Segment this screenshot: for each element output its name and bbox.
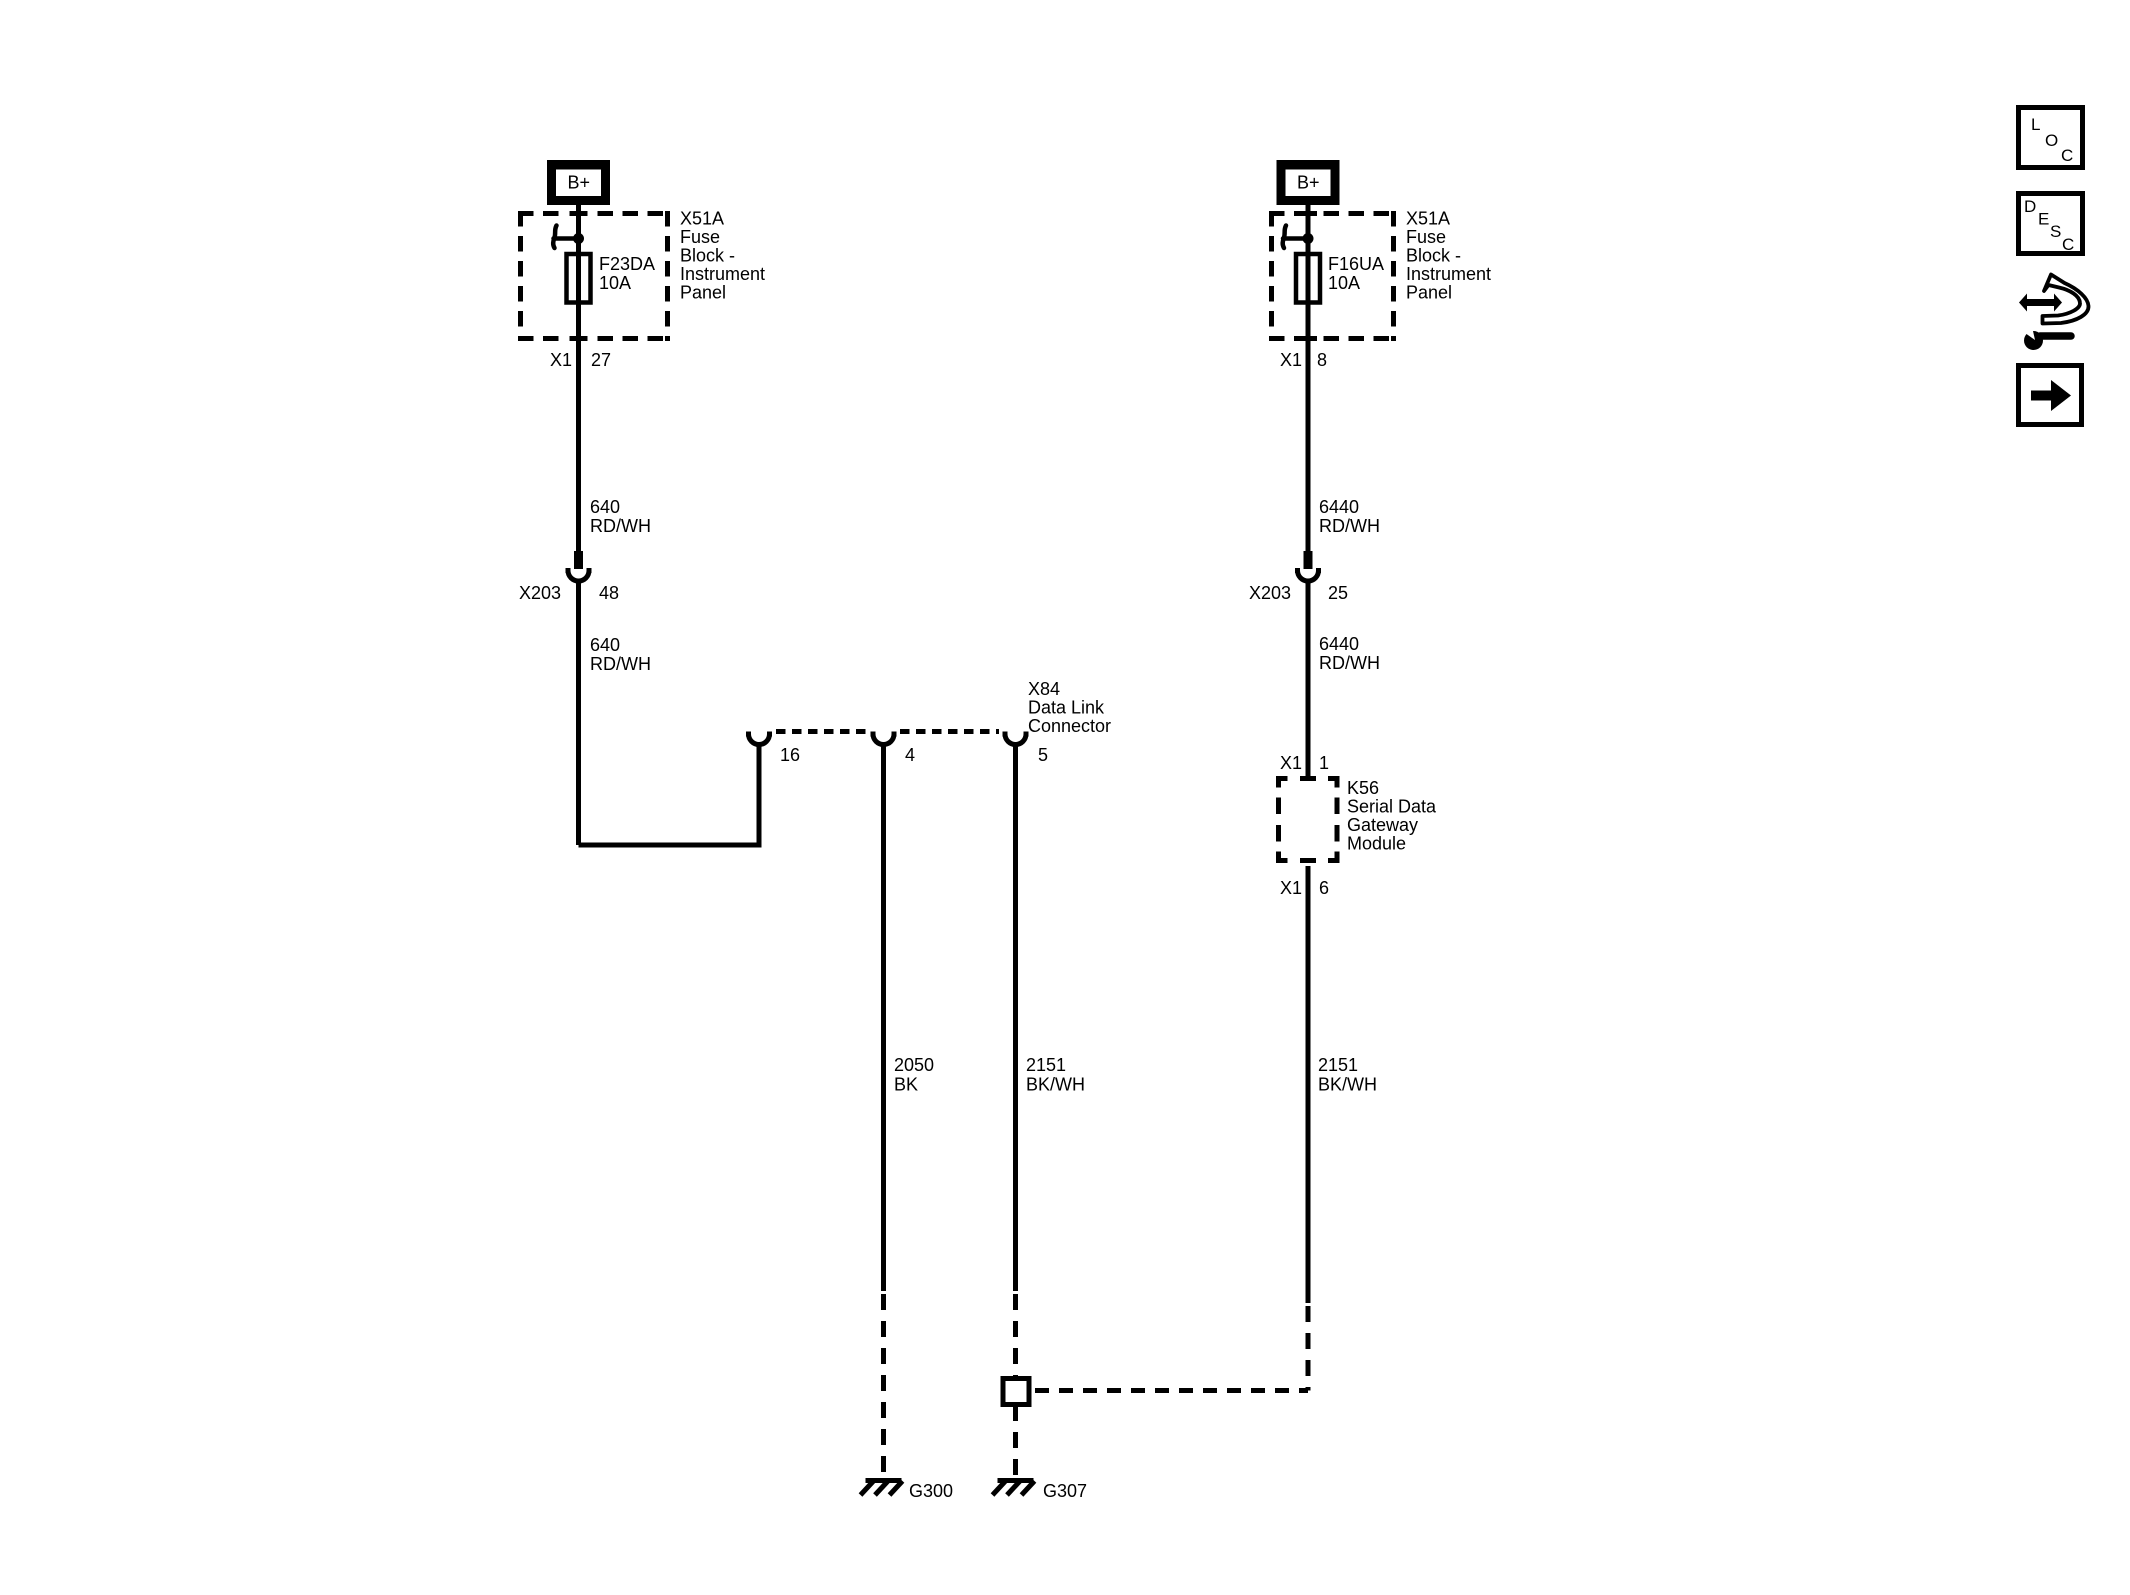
svg-text:X51A: X51A [1406, 209, 1450, 229]
power symbol B+ (battery feed) [1277, 160, 1340, 205]
svg-text:F23DA: F23DA [599, 254, 655, 274]
svg-text:C: C [2062, 235, 2074, 254]
fuse F16UA symbol [1296, 254, 1320, 303]
LOC icon box [2019, 108, 2083, 168]
svg-text:X203: X203 [1249, 583, 1291, 603]
wire 6440 RD/WH lower [1306, 583, 1311, 776]
fuse block X51A dashed outline [1269, 211, 1396, 341]
wire 640 RD/WH lower [576, 583, 581, 845]
connector X84 pin 5 [1003, 734, 1029, 745]
wire 2151 BK/WH solid (right) [1306, 866, 1311, 1303]
wire B+ through fuse block [1306, 205, 1311, 345]
wire 6440 RD/WH upper [1306, 341, 1311, 551]
svg-text:Panel: Panel [680, 283, 726, 303]
svg-text:10A: 10A [1328, 273, 1360, 293]
svg-text:L: L [2031, 115, 2040, 134]
svg-text:O: O [2045, 131, 2058, 150]
fuse block X51A dashed outline [518, 211, 670, 341]
svg-text:X51A: X51A [680, 209, 724, 229]
svg-text:RD/WH: RD/WH [590, 654, 651, 674]
svg-text:X1: X1 [1280, 350, 1302, 370]
ground G300 symbol [861, 1481, 903, 1496]
fuse block bus clip symbol [1283, 226, 1308, 249]
wire 2151 dashed down to splice level [1306, 1306, 1311, 1391]
svg-text:6440: 6440 [1319, 497, 1359, 517]
svg-text:5: 5 [1038, 745, 1048, 765]
svg-text:640: 640 [590, 635, 620, 655]
svg-text:X1: X1 [1280, 878, 1302, 898]
svg-text:Serial Data: Serial Data [1347, 797, 1437, 817]
fuse F23DA symbol [567, 254, 591, 303]
svg-text:8: 8 [1317, 350, 1327, 370]
wire 2050 BK solid [881, 746, 886, 1291]
terminal tick top [1299, 211, 1317, 216]
svg-text:25: 25 [1328, 583, 1348, 603]
wire 2151 BK/WH solid (from pin 5) [1013, 746, 1018, 1291]
connector X203 in-line symbol [1295, 551, 1321, 581]
svg-text:K56: K56 [1347, 778, 1379, 798]
svg-text:BK/WH: BK/WH [1026, 1075, 1085, 1095]
svg-text:B+: B+ [1297, 173, 1320, 193]
wire 2151 dashed to splice [1013, 1294, 1018, 1378]
svg-text:640: 640 [590, 497, 620, 517]
svg-text:48: 48 [599, 583, 619, 603]
power symbol B+ (battery feed) [547, 160, 610, 205]
svg-text:C: C [2061, 146, 2073, 165]
svg-text:S: S [2050, 222, 2061, 241]
diagnostic tool icon [2019, 275, 2089, 351]
svg-text:X203: X203 [519, 583, 561, 603]
K56 terminal tick top [1300, 776, 1316, 781]
svg-text:BK: BK [894, 1075, 918, 1095]
junction dot [1303, 233, 1314, 244]
svg-text:B+: B+ [568, 173, 591, 193]
svg-text:2151: 2151 [1318, 1055, 1358, 1075]
svg-text:G300: G300 [909, 1481, 953, 1501]
fuse block bus clip symbol [553, 226, 578, 249]
terminal tick bottom [1299, 336, 1317, 341]
wire 640 RD/WH upper [576, 341, 581, 551]
svg-text:Instrument: Instrument [680, 264, 765, 284]
X84 dashed body segment 1 [776, 729, 867, 734]
terminal tick bottom [570, 336, 588, 341]
splice junction box [1003, 1379, 1029, 1405]
ground G307 symbol [993, 1481, 1035, 1496]
svg-text:X1: X1 [1280, 753, 1302, 773]
svg-text:X84: X84 [1028, 679, 1060, 699]
svg-text:2151: 2151 [1026, 1055, 1066, 1075]
svg-text:Block -: Block - [1406, 246, 1461, 266]
svg-text:27: 27 [591, 350, 611, 370]
svg-text:4: 4 [905, 745, 915, 765]
svg-text:6440: 6440 [1319, 634, 1359, 654]
svg-text:X1: X1 [550, 350, 572, 370]
wire dashed splice to ground G307 [1013, 1405, 1018, 1478]
svg-text:16: 16 [780, 745, 800, 765]
connector X84 pin 4 [871, 734, 897, 745]
svg-text:Panel: Panel [1406, 283, 1452, 303]
svg-text:6: 6 [1319, 878, 1329, 898]
svg-text:Fuse: Fuse [1406, 227, 1446, 247]
DESC icon box [2019, 194, 2083, 255]
svg-text:Data Link: Data Link [1028, 698, 1105, 718]
module K56 dashed box [1279, 779, 1338, 861]
forward arrow icon box [2019, 366, 2082, 425]
svg-text:Connector: Connector [1028, 716, 1111, 736]
connector X203 in-line symbol [566, 551, 592, 581]
svg-text:RD/WH: RD/WH [590, 516, 651, 536]
svg-text:2050: 2050 [894, 1055, 934, 1075]
connector X84 pin 16 [746, 734, 772, 745]
K56 terminal tick bottom [1300, 858, 1316, 863]
wire B+ through fuse block [576, 205, 581, 345]
svg-text:Fuse: Fuse [680, 227, 720, 247]
svg-text:Module: Module [1347, 834, 1406, 854]
svg-text:G307: G307 [1043, 1481, 1087, 1501]
dashed wire splice to right branch [1035, 1388, 1308, 1393]
svg-text:D: D [2024, 197, 2036, 216]
terminal tick top [570, 211, 588, 216]
svg-text:Block -: Block - [680, 246, 735, 266]
wire corner to X84 pin 16 [579, 746, 760, 845]
svg-text:1: 1 [1319, 753, 1329, 773]
svg-text:10A: 10A [599, 273, 631, 293]
svg-text:Gateway: Gateway [1347, 815, 1418, 835]
junction dot [573, 233, 584, 244]
svg-text:BK/WH: BK/WH [1318, 1075, 1377, 1095]
svg-text:E: E [2038, 210, 2049, 229]
X84 dashed body segment 2 [900, 729, 999, 734]
svg-text:F16UA: F16UA [1328, 254, 1384, 274]
svg-text:RD/WH: RD/WH [1319, 516, 1380, 536]
svg-text:Instrument: Instrument [1406, 264, 1491, 284]
svg-text:RD/WH: RD/WH [1319, 653, 1380, 673]
wire 2050 BK dashed to ground [881, 1294, 886, 1478]
